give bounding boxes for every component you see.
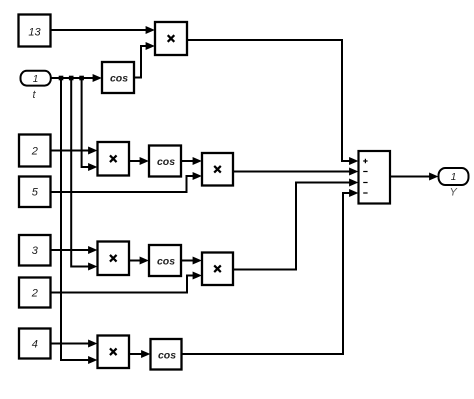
product block XA (top): [155, 22, 187, 55]
svg-text:cos: cos: [158, 349, 176, 361]
product block XC2: [202, 253, 233, 286]
constant block 2 (third row): [19, 278, 51, 308]
wire cosD to sum input4: [182, 189, 359, 354]
svg-text:2: 2: [31, 287, 38, 299]
wire cosB to XB2 input1: [181, 157, 202, 165]
wire 2 to XB1 input1: [51, 147, 98, 155]
wire sum to outport Y: [390, 173, 438, 181]
wire 3 to XC1 input1: [51, 246, 98, 254]
svg-text:4: 4: [32, 338, 38, 350]
constant block 4: [19, 329, 51, 359]
svg-text:1: 1: [33, 74, 39, 85]
inport 1 (t): [21, 71, 51, 101]
constant block 2 (second row): [19, 135, 51, 167]
svg-text:cos: cos: [157, 156, 175, 168]
wire 2 (third row) to XC2 input2: [51, 272, 202, 293]
cos block D: [151, 339, 182, 370]
wire XC2 to sum input3: [233, 179, 358, 270]
wire 5 to XB2 input2: [51, 172, 202, 192]
constant block 13: [19, 15, 51, 47]
svg-text:2: 2: [31, 145, 38, 157]
junction dot 2: [69, 76, 74, 81]
svg-text:cos: cos: [157, 256, 175, 268]
wire t branch to XD1 input2: [61, 78, 97, 364]
wire XB2 to sum input2: [233, 168, 358, 176]
svg-text:3: 3: [32, 245, 39, 257]
svg-text:cos: cos: [110, 73, 128, 85]
cos block B: [149, 146, 181, 177]
wire cosA to XA input2: [134, 42, 155, 78]
junction dot 1: [59, 76, 64, 81]
constant block 3: [19, 235, 51, 266]
product block XB2: [202, 153, 233, 186]
wire XC1 to cosC: [129, 257, 149, 265]
product block XD1: [98, 336, 130, 369]
junction dot 3: [79, 76, 84, 81]
sum block: [359, 151, 391, 204]
cos block C: [149, 245, 181, 276]
wire XD1 to cosD: [129, 350, 150, 358]
wire cosC to XC2 input1: [181, 257, 202, 265]
wire 4 to XD1 input1: [51, 340, 98, 348]
constant block 5: [19, 177, 51, 208]
product block XC1: [98, 242, 130, 276]
svg-text:Y: Y: [450, 187, 458, 199]
product block XB1: [98, 142, 130, 176]
svg-text:13: 13: [28, 26, 41, 38]
svg-text:1: 1: [451, 172, 457, 183]
wire 13 to XA input1: [51, 26, 155, 34]
outport 1 (Y): [439, 168, 469, 199]
cos block A: [102, 62, 134, 93]
wire XA to sum input1: [187, 40, 358, 165]
svg-text:5: 5: [32, 187, 39, 199]
wire t branch to XB1 input2: [82, 78, 98, 171]
wire t to cosA: [51, 74, 102, 82]
wire t branch to XC1 input2: [71, 78, 97, 271]
wire XB1 to cosB: [129, 157, 149, 165]
